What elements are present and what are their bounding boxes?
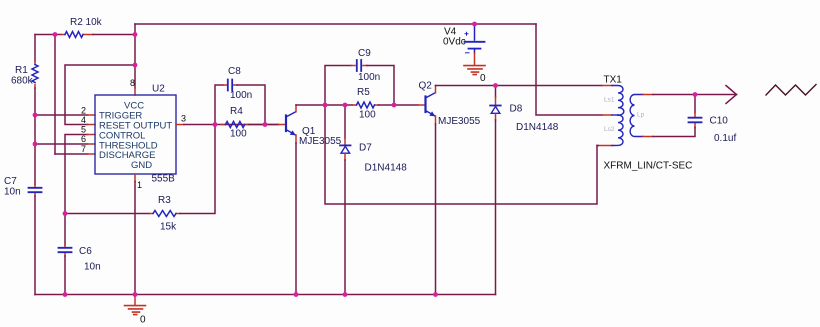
node output / C8 / R3 bbox=[213, 122, 218, 127]
capacitor C8 red stubs bbox=[223, 84, 237, 86]
node junction dots bbox=[33, 22, 698, 297]
svg-text:C6: C6 bbox=[79, 246, 92, 257]
ground 0 at bottom bbox=[134, 295, 136, 306]
svg-text:TX1: TX1 bbox=[604, 75, 623, 86]
capacitor C7 red stubs bbox=[34, 185, 36, 197]
svg-text:2: 2 bbox=[81, 106, 86, 116]
wire C8 left column bbox=[215, 85, 223, 125]
wire pin2 row bbox=[35, 114, 88, 116]
svg-text:100n: 100n bbox=[230, 90, 252, 101]
svg-text:XFRM_LIN/CT-SEC: XFRM_LIN/CT-SEC bbox=[604, 161, 693, 172]
wire Q2 emitter to ground rail bbox=[435, 124, 437, 295]
transistor Q2 base red stub bbox=[418, 104, 425, 106]
node C6 on ground rail bbox=[63, 292, 68, 297]
svg-text:GND: GND bbox=[131, 160, 152, 171]
wire C8 right column bbox=[237, 85, 265, 125]
svg-text:0Vdc: 0Vdc bbox=[443, 37, 466, 48]
node control / R3 bbox=[63, 211, 68, 216]
U2 pin red stubs left side bbox=[88, 115, 96, 154]
svg-text:100n: 100n bbox=[358, 72, 380, 83]
wire Q2 collector row to TX1 bbox=[436, 85, 603, 87]
svg-text:R4: R4 bbox=[230, 106, 243, 117]
capacitor C6 red stubs bbox=[64, 245, 66, 256]
svg-text:C9: C9 bbox=[358, 48, 371, 59]
node R2 right / VCC bbox=[133, 32, 138, 37]
svg-text:6: 6 bbox=[81, 134, 86, 144]
TX1 Lp top pin red stub bbox=[643, 94, 653, 96]
svg-text:U2: U2 bbox=[152, 84, 165, 95]
resistor R1 zigzag bbox=[32, 65, 38, 83]
svg-text:D8: D8 bbox=[510, 104, 523, 115]
svg-text:R3: R3 bbox=[158, 195, 171, 206]
svg-text:0: 0 bbox=[140, 315, 146, 326]
wire discharge column x55 bbox=[54, 35, 56, 155]
TX1 Ls2 bottom pin red stub bbox=[598, 145, 612, 147]
svg-text:100: 100 bbox=[230, 129, 247, 140]
svg-text:MJE3055: MJE3055 bbox=[299, 136, 342, 147]
svg-text:680k: 680k bbox=[11, 76, 34, 87]
wire R3 row left bbox=[65, 213, 150, 215]
wire C10 top column bbox=[694, 95, 696, 113]
wire output row with arrow bbox=[653, 94, 737, 96]
wire pin5 row and control column bbox=[65, 135, 88, 246]
node threshold bbox=[33, 142, 38, 147]
capacitor C6 plates bbox=[59, 248, 72, 252]
wire D7 anode to ground rail bbox=[344, 160, 346, 295]
wire pin8 vertical from rail to U2 bbox=[134, 24, 136, 88]
TX1 Lp bottom pin red stub bbox=[643, 136, 653, 138]
capacitor C7 plates bbox=[29, 188, 42, 192]
svg-text:R5: R5 bbox=[357, 87, 370, 98]
svg-text:0: 0 bbox=[480, 73, 486, 84]
svg-text:D1N4148: D1N4148 bbox=[365, 163, 408, 174]
resistor R2 red stubs bbox=[61, 34, 93, 36]
node D8 cathode / Q2 collector bbox=[493, 83, 498, 88]
ground 0 under V4 bbox=[464, 53, 485, 75]
resistor R3 red stubs bbox=[150, 213, 181, 215]
TX1 Ls1 top pin red stub bbox=[602, 85, 612, 87]
wire R2 left segment bbox=[35, 34, 61, 36]
node Q2 emitter ground bbox=[433, 292, 438, 297]
node V4 on VCC rail bbox=[472, 22, 477, 27]
svg-text:5: 5 bbox=[81, 125, 86, 135]
TX1 center tap stub blue bbox=[612, 114, 618, 116]
node pin4 VCC tie bbox=[133, 63, 138, 68]
diode D8 red stub top bbox=[495, 97, 497, 105]
svg-text:10n: 10n bbox=[84, 262, 101, 273]
node R2 left / discharge bbox=[53, 32, 58, 37]
node D7 anode ground bbox=[343, 292, 348, 297]
svg-text:MJE3055: MJE3055 bbox=[438, 116, 481, 127]
resistor R2 zigzag bbox=[65, 32, 83, 38]
wire pin3 row to Q1 base bbox=[249, 124, 279, 126]
svg-text:D7: D7 bbox=[359, 143, 372, 154]
voltage source V4 bbox=[465, 24, 485, 53]
resistor R3 zigzag bbox=[153, 211, 176, 217]
svg-text:R2 10k: R2 10k bbox=[70, 17, 103, 28]
node C10 / output arrow bbox=[693, 92, 698, 97]
wire pin1 column to ground rail bbox=[134, 182, 136, 295]
transistor Q1 base red stub bbox=[279, 124, 286, 126]
diode D7 red stub top bbox=[344, 138, 346, 145]
wire Ls2 bottom corner bbox=[597, 145, 598, 147]
svg-text:7: 7 bbox=[81, 144, 86, 154]
capacitor C9 plates bbox=[357, 60, 361, 71]
diode D7 bbox=[340, 145, 351, 153]
svg-text:Q2: Q2 bbox=[419, 81, 433, 92]
op-amp/timer U2 box bbox=[95, 95, 176, 174]
wire pin6 row bbox=[35, 143, 88, 145]
transistor Q1 collector red stub bbox=[295, 105, 297, 112]
capacitor C10 plates bbox=[689, 118, 702, 123]
transistor Q2 emitter red stub bbox=[435, 116, 437, 124]
resistor R4 zigzag bbox=[226, 122, 245, 128]
transistor Q1 bbox=[286, 112, 296, 135]
wire VCC top rail bbox=[135, 23, 536, 25]
pin 1 red stub bbox=[134, 174, 136, 182]
resistor R5 zigzag bbox=[357, 102, 375, 108]
svg-text:Ls1: Ls1 bbox=[604, 97, 615, 104]
resistor R5 red stubs bbox=[353, 104, 379, 106]
svg-text:D1N4148: D1N4148 bbox=[516, 122, 559, 133]
wire C10 bottom to Lp bottom bbox=[653, 128, 695, 137]
svg-text:100: 100 bbox=[359, 110, 376, 121]
diode D8 bbox=[490, 106, 501, 114]
svg-text:Ls2: Ls2 bbox=[604, 126, 615, 133]
node Q1 emitter ground bbox=[294, 292, 299, 297]
output arrowhead bbox=[726, 86, 737, 104]
diode D8 red stub bottom bbox=[495, 114, 497, 120]
pin 3 red stub bbox=[176, 124, 184, 126]
transistor Q2 bbox=[426, 93, 436, 116]
resistor R1 red stubs bbox=[34, 61, 36, 88]
wire Q1 collector drive column down bbox=[325, 105, 597, 204]
node C8 right / Q1 base bbox=[263, 122, 268, 127]
pin 8 red stub bbox=[134, 88, 136, 95]
svg-text:R1: R1 bbox=[15, 65, 28, 76]
diode D7 top wire bbox=[344, 105, 346, 138]
capacitor C10 red stubs bbox=[694, 113, 696, 128]
wire VCC rail corner to transformer center tap bbox=[536, 24, 602, 115]
wire R5 to Q2 base bbox=[379, 104, 419, 106]
wire C9 left column bbox=[325, 66, 351, 106]
diode D8 top wire bbox=[495, 86, 497, 98]
TX1 center tap red stub bbox=[602, 114, 612, 116]
svg-text:0.1uf: 0.1uf bbox=[714, 133, 736, 144]
svg-text:10n: 10n bbox=[4, 187, 21, 198]
TX1 left winding Ls1 bbox=[612, 86, 624, 116]
svg-text:15k: 15k bbox=[160, 222, 177, 233]
capacitor C8 plates bbox=[228, 80, 232, 91]
svg-text:1: 1 bbox=[137, 180, 142, 190]
svg-text:555B: 555B bbox=[152, 174, 176, 185]
resistor R4 red stubs bbox=[222, 124, 249, 126]
svg-text:C7: C7 bbox=[4, 176, 17, 187]
transistor Q1 emitter red stub bbox=[295, 135, 297, 143]
node D7 cathode bbox=[343, 103, 348, 108]
wire D8 anode to ground rail bbox=[495, 120, 497, 295]
wire left column (R1 to C7) bbox=[34, 88, 36, 185]
TX1 left winding Ls2 bbox=[612, 115, 623, 146]
transformer TX1 bbox=[598, 86, 653, 146]
svg-text:Lp: Lp bbox=[637, 112, 645, 119]
node pin1 ground bbox=[133, 292, 138, 297]
svg-text:4: 4 bbox=[81, 115, 86, 125]
capacitor C9 red stubs bbox=[351, 65, 367, 67]
wire output pin3 row bbox=[184, 124, 279, 126]
transistor Q2 collector red stub bbox=[435, 86, 437, 93]
waveform sawtooth marker bbox=[766, 85, 816, 96]
svg-text:8: 8 bbox=[130, 78, 135, 88]
wire C9 right column bbox=[367, 66, 394, 106]
wire Q1 collector row bbox=[296, 104, 353, 106]
wire left column (C7 to ground rail) bbox=[34, 196, 36, 295]
node C9 right / Q2 base bbox=[392, 103, 397, 108]
wire R3 right to output column bbox=[180, 125, 215, 214]
svg-text:C10: C10 bbox=[710, 116, 729, 127]
node trigger bbox=[33, 113, 38, 118]
svg-text:C8: C8 bbox=[228, 66, 241, 77]
diode D7 red stub bottom bbox=[344, 154, 346, 160]
wire pin7 row bbox=[55, 153, 88, 155]
wire ground rail bbox=[35, 294, 496, 296]
wire control column (C6 to ground rail) bbox=[64, 256, 66, 295]
wire Q1 emitter to ground rail bbox=[295, 143, 297, 295]
wire R2 right segment bbox=[93, 34, 135, 36]
wire VCC tie row to pin4 bbox=[65, 65, 135, 125]
wire left column top (R2 to R1) bbox=[34, 35, 36, 62]
TX1 right winding Lp bbox=[630, 95, 643, 137]
node Q1 collector / C9 left bbox=[323, 103, 328, 108]
svg-text:3: 3 bbox=[181, 114, 186, 124]
